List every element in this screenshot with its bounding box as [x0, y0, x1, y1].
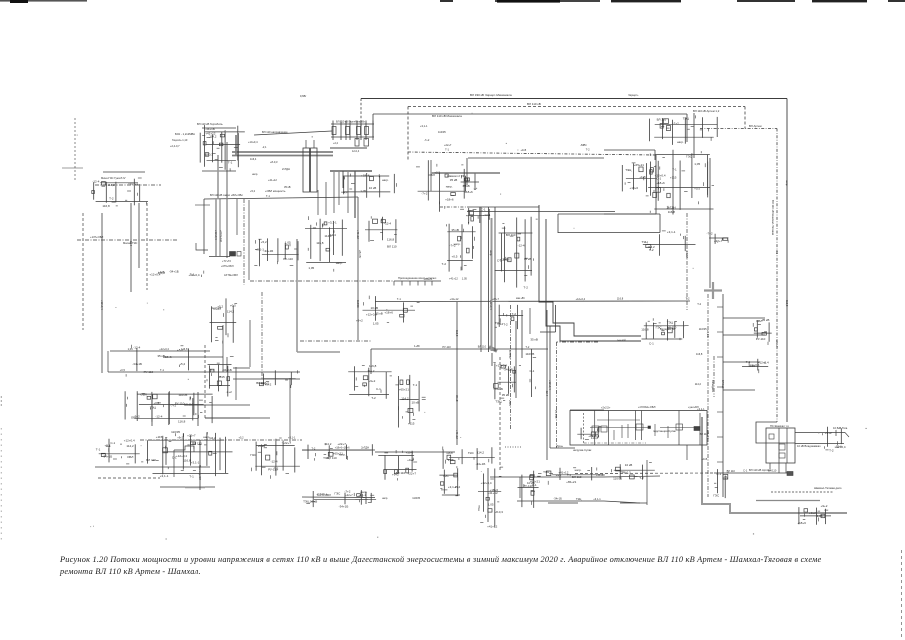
svg-text:нагр.: нагр.	[341, 190, 348, 194]
svg-text:Т-1: Т-1	[189, 474, 194, 478]
svg-text:+8-0,3: +8-0,3	[622, 471, 631, 475]
svg-text:10 кВ Владикавказ: 10 кВ Владикавказ	[797, 444, 821, 448]
substation ladder Gergebil 110 kV	[330, 120, 374, 154]
svg-text:+2,4: +2,4	[333, 142, 339, 145]
wire thick stub Gotsatl	[235, 135, 237, 155]
svg-text:+41+12: +41+12	[450, 297, 459, 301]
tap inside Sulak e	[627, 424, 629, 438]
svg-text:9,6Вт: 9,6Вт	[300, 94, 307, 98]
svg-text:+115: +115	[702, 457, 708, 461]
svg-text:С-1: С-1	[775, 250, 779, 255]
wire Shamkhal-Tyagovaya dotted	[771, 491, 833, 493]
wire dash-dot vertical 510	[510, 305, 512, 430]
svg-text:114,2: 114,2	[647, 245, 655, 249]
svg-text:ВЛ 110: ВЛ 110	[478, 345, 487, 349]
svg-text:ОБЛ: ОБЛ	[140, 393, 146, 397]
tap labels along south trunk	[695, 302, 723, 462]
bus inside Sulak a	[594, 411, 596, 446]
svg-text:+5,2: +5,2	[250, 189, 256, 193]
value labels mid-left band	[248, 140, 291, 198]
svg-text:+5,2: +5,2	[454, 485, 460, 489]
svg-text:ВЛ Артем: ВЛ Артем	[749, 124, 762, 128]
wire bus 211	[467, 211, 615, 213]
svg-text:2хТДН: 2хТДН	[361, 446, 369, 450]
wire south trunk with taps	[722, 294, 724, 497]
svg-text:116,4: 116,4	[250, 157, 257, 161]
svg-text:-7+2: -7+2	[707, 232, 713, 236]
svg-text:-12-4: -12-4	[133, 346, 140, 350]
svg-text:1,05: 1,05	[360, 189, 366, 193]
wire Makhachkala-Izberbash trunk	[709, 158, 711, 288]
wire thick flow to Shamkhal-Tyagovaya	[702, 417, 847, 513]
wire tie line Gergebil	[254, 131, 332, 135]
svg-text:подстанция Сулак: подстанция Сулак	[653, 429, 677, 433]
svg-text:Т-2: Т-2	[371, 396, 376, 400]
wire corner left 243	[196, 243, 208, 250]
substation group taps labels	[742, 359, 769, 373]
svg-text:-12-4: -12-4	[155, 415, 162, 419]
substation group Derbent PS group	[493, 363, 521, 404]
svg-text:нагрузка Сулак: нагрузка Сулак	[573, 448, 592, 452]
bus Shamkhal inner a	[778, 428, 780, 463]
wire Vladikavkaz lead	[795, 443, 844, 445]
wire tie 148	[330, 147, 367, 149]
svg-text:ОБЛ: ОБЛ	[127, 455, 133, 459]
wire thick flow Botlikh	[185, 487, 205, 489]
wire Gotsatl lower tie	[204, 197, 358, 199]
svg-text:ВЛ 110 направление: ВЛ 110 направление	[262, 130, 288, 134]
svg-text:Т-1: Т-1	[567, 473, 571, 477]
value labels tie 301 east	[576, 297, 690, 301]
wire Derbent drop	[519, 477, 521, 498]
svg-text:ОБЛ: ОБЛ	[756, 319, 762, 323]
svg-text:116,8: 116,8	[316, 241, 324, 245]
substation group Mamedkala end box	[355, 490, 376, 505]
svg-text:+12+0,4: +12+0,4	[124, 439, 135, 443]
svg-text:110/35: 110/35	[178, 393, 187, 397]
svg-text:+65+21: +65+21	[634, 163, 645, 167]
wire Shamkhal box drop c	[785, 463, 787, 473]
wire vertical 495	[494, 207, 496, 351]
svg-text:+9+2: +9+2	[369, 379, 376, 383]
substation group mid boxes	[461, 173, 479, 194]
substation group SW corner chain	[439, 468, 460, 496]
svg-text:нагр.: нагр.	[785, 180, 788, 186]
wire vertical 516	[515, 321, 517, 398]
substation group Botlikh group	[125, 391, 213, 425]
substation group transformer group center	[442, 224, 476, 272]
wire drop to 13b	[226, 199, 228, 258]
svg-text:Т-1: Т-1	[746, 360, 751, 364]
wire stub left 205	[195, 204, 210, 206]
wire Mamedkala chain	[302, 496, 375, 499]
svg-text:-34+1Б: -34+1Б	[339, 505, 349, 509]
svg-text:+5,2: +5,2	[239, 435, 245, 439]
svg-text:С-1: С-1	[530, 369, 535, 373]
svg-text:-34+1Б: -34+1Б	[685, 250, 689, 259]
svg-text:-34+1Б: -34+1Б	[503, 368, 513, 372]
svg-text:нагр.: нагр.	[575, 468, 582, 472]
svg-text:+12+0,4: +12+0,4	[189, 273, 200, 277]
substation group Kaspiysk south group	[443, 447, 495, 470]
svg-text:+3,1-1: +3,1-1	[697, 407, 705, 411]
svg-text:+22+7: +22+7	[408, 471, 417, 475]
svg-text:+22+7: +22+7	[775, 340, 779, 348]
wire Levashi chain	[302, 449, 375, 451]
wire lateral 35 kV a	[110, 350, 210, 352]
substation group box above Sulak	[577, 426, 601, 440]
wire rectangle right side	[659, 214, 661, 233]
svg-text:С-1: С-1	[376, 387, 381, 391]
substation group Derbent chain labels	[543, 467, 604, 485]
svg-text:нагр.: нагр.	[446, 184, 453, 188]
svg-text:110/35: 110/35	[412, 496, 420, 500]
svg-text:+18+6: +18+6	[163, 355, 172, 359]
wire dash-dot inside Sulak bottom	[584, 442, 646, 444]
wire step down at 655	[654, 150, 656, 160]
svg-text:С-1: С-1	[172, 455, 177, 459]
svg-text:1,05: 1,05	[373, 321, 379, 325]
svg-text:114,2: 114,2	[107, 183, 115, 187]
svg-text:+65+21: +65+21	[399, 388, 410, 392]
svg-text:С-1: С-1	[110, 441, 115, 445]
svg-text:+3,1-1: +3,1-1	[420, 124, 428, 128]
svg-text:-34+1Б: -34+1Б	[132, 362, 142, 366]
svg-text:ВЛ 110: ВЛ 110	[327, 456, 337, 460]
junction thick cross vertical	[712, 282, 714, 299]
svg-text:35 кВ: 35 кВ	[258, 444, 265, 448]
svg-text:35 кВ: 35 кВ	[450, 178, 457, 182]
wire tie 503	[620, 502, 647, 504]
svg-text:нагр.: нагр.	[489, 250, 492, 256]
svg-text:-7+2: -7+2	[421, 192, 427, 196]
wire vertical 522	[521, 310, 523, 358]
wire thick drop Shamkhal-2	[430, 160, 432, 191]
svg-text:+ОБЛ+148: +ОБЛ+148	[219, 230, 222, 242]
svg-text:+12+0,4: +12+0,4	[176, 454, 187, 458]
svg-text:35 кВ: 35 кВ	[502, 393, 509, 397]
wire Botlikh drop a	[151, 395, 153, 426]
wire left edge dashed feeder	[74, 118, 76, 180]
substation group Khunzakh group	[92, 178, 148, 208]
svg-text:+12+0,4: +12+0,4	[835, 445, 846, 449]
box next to Chirkei block	[237, 252, 241, 257]
svg-text:+0,5: +0,5	[153, 401, 159, 405]
substation group Belidzhi taps boxes	[753, 318, 772, 345]
svg-text:-7+2: -7+2	[424, 138, 430, 142]
svg-text:+18+6: +18+6	[630, 186, 639, 190]
svg-text:10 кВ: 10 кВ	[462, 184, 469, 188]
wire drop 220	[219, 199, 221, 256]
value labels bus 281	[424, 277, 468, 281]
svg-text:+65+21: +65+21	[566, 480, 577, 484]
svg-text:+0,5: +0,5	[452, 254, 458, 258]
svg-text:-34+1Б: -34+1Б	[553, 497, 562, 501]
wire drop at 371	[370, 349, 372, 374]
wire thick flow Derbent	[548, 502, 578, 504]
svg-text:Т-2: Т-2	[523, 286, 528, 290]
svg-text:+41+12: +41+12	[268, 178, 277, 182]
svg-text:нагр.: нагр.	[556, 474, 562, 477]
svg-text:С-1: С-1	[723, 476, 728, 480]
svg-text:ГЭС: ГЭС	[250, 453, 257, 457]
wire thick Gotsatl flow	[217, 155, 219, 198]
svg-text:-12-4: -12-4	[483, 213, 490, 217]
wire stub above box G1	[305, 140, 307, 148]
svg-text:+12+0,4: +12+0,4	[576, 297, 586, 301]
wire dash-dot Kaspiysk lateral	[686, 213, 688, 310]
wire end hook	[845, 433, 849, 438]
wire double bus upper (to Gergebil)	[232, 151, 333, 153]
value labels tie 301 west	[397, 297, 500, 301]
substation group Shamkhal-2 group	[416, 160, 466, 212]
wire Botlikh drop b	[197, 392, 199, 426]
value labels near center top	[420, 124, 452, 147]
wire tap Belidzhi b	[723, 334, 765, 336]
substation group group 38	[250, 438, 300, 479]
wire tie inside Sulak	[590, 427, 650, 429]
svg-text:+3,1-1: +3,1-1	[706, 330, 710, 338]
wire Artem lower tie	[756, 500, 820, 502]
svg-text:+0,5: +0,5	[434, 171, 440, 175]
wire center vertical 457	[456, 302, 458, 445]
svg-text:1,05: 1,05	[817, 514, 823, 518]
svg-text:+9+2: +9+2	[356, 319, 363, 323]
svg-text:ВЛ 110 кВ Артём+: ВЛ 110 кВ Артём+	[749, 468, 772, 472]
value labels lateral c	[120, 368, 215, 372]
value labels VL Artem chain	[727, 468, 777, 473]
svg-text:114,2: 114,2	[324, 234, 332, 238]
wire dashed lateral	[98, 477, 160, 479]
svg-text:+41+12: +41+12	[596, 473, 605, 477]
svg-text:нагр.: нагр.	[252, 173, 258, 176]
bus inside Sulak dashed	[583, 413, 585, 443]
svg-text:-34+1Б: -34+1Б	[493, 387, 503, 391]
substation group left labels	[96, 439, 144, 464]
svg-text:Т-1: Т-1	[228, 161, 233, 165]
wire vertical 488	[488, 207, 490, 352]
svg-text:ВЛ 110: ВЛ 110	[572, 475, 582, 479]
svg-text:Т-1: Т-1	[96, 448, 101, 452]
svg-text:-34+1Б: -34+1Б	[103, 455, 113, 459]
wire Artem drop	[693, 113, 695, 158]
svg-text:Т-1: Т-1	[210, 368, 214, 372]
wire box top edge reinforce	[570, 409, 604, 411]
svg-text:нагр.: нагр.	[677, 140, 684, 144]
svg-text:ГЭС: ГЭС	[713, 494, 720, 498]
wire dotted stub 447	[505, 446, 522, 448]
svg-text:+115: +115	[521, 148, 527, 152]
value labels tie 349	[442, 345, 529, 349]
wire vertical 250	[249, 320, 251, 367]
svg-text:1,05: 1,05	[128, 347, 134, 351]
svg-text:Гоцатль 1,10: Гоцатль 1,10	[172, 138, 188, 142]
wire Khunzakh dash-dot feeder	[95, 184, 161, 186]
wire Botlikh bus b	[205, 417, 250, 419]
wire drop 237	[236, 199, 238, 235]
wire Derbent chain upper	[490, 476, 604, 478]
wire tie 448	[550, 447, 575, 449]
wire dash-dot continue	[713, 356, 715, 397]
svg-text:+9+2: +9+2	[177, 435, 183, 439]
svg-text:С-1: С-1	[481, 208, 486, 212]
generator box Chirkei G2	[311, 148, 318, 192]
verticals dropping from Buynaksk bus	[318, 171, 348, 215]
svg-text:+18+6: +18+6	[342, 446, 350, 450]
junction block on Artem chain	[787, 472, 793, 476]
wire vertical 290	[289, 378, 291, 442]
wire dash-dot 342	[557, 341, 599, 343]
rotated line designations along vertical feeders	[100, 180, 789, 439]
bus 281 tap ticks	[394, 281, 432, 286]
svg-text:ВЛ 110: ВЛ 110	[387, 245, 397, 249]
svg-text:+18+6: +18+6	[445, 198, 454, 202]
tap inside Sulak d	[667, 426, 669, 438]
wire dash-dot drop 244	[243, 199, 245, 285]
svg-text:114,2: 114,2	[401, 396, 409, 400]
svg-text:1,05: 1,05	[308, 266, 314, 270]
svg-text:Т-2: Т-2	[586, 148, 590, 152]
tap inside Sulak b	[621, 425, 623, 438]
svg-text:+12+0,4: +12+0,4	[489, 300, 493, 310]
svg-text:-12-4: -12-4	[518, 244, 525, 248]
svg-text:-34+1Б: -34+1Б	[222, 368, 232, 372]
svg-text:С-1: С-1	[649, 341, 654, 345]
substation group bus 207 bays	[466, 207, 491, 224]
substation group lateral labels	[126, 345, 188, 377]
svg-text:ОБЛ: ОБЛ	[429, 173, 435, 177]
wire Gunib tie	[95, 466, 210, 468]
svg-text:Т-2: Т-2	[512, 312, 517, 316]
svg-text:10,5кВ Тяга: 10,5кВ Тяга	[833, 426, 848, 430]
svg-text:116,8: 116,8	[446, 451, 453, 455]
svg-text:Т-2: Т-2	[442, 262, 447, 266]
svg-text:+3,1-1: +3,1-1	[593, 497, 601, 501]
svg-text:+0Т6+ОБЛ: +0Т6+ОБЛ	[221, 265, 234, 268]
wire VL Artem chain dashed	[575, 472, 714, 475]
svg-text:Присоединение всего +отключ: Присоединение всего +отключ	[398, 276, 437, 280]
station box Shamkhal-Tyagovaya	[766, 428, 795, 463]
svg-text:1,05: 1,05	[462, 277, 468, 281]
svg-text:-12-4: -12-4	[129, 240, 133, 247]
bus Sulak right section	[699, 413, 701, 445]
svg-text:+12+0,4: +12+0,4	[496, 364, 507, 368]
svg-text:ВЛ 110: ВЛ 110	[727, 469, 736, 473]
wire drop 249	[248, 200, 250, 280]
wire vertical 223	[222, 325, 224, 372]
value labels dash-dot loop mid	[445, 148, 590, 152]
wire vertical 481	[480, 207, 482, 352]
svg-text:+8-0,3: +8-0,3	[204, 152, 213, 156]
svg-text:+3,1-1: +3,1-1	[359, 493, 367, 497]
wire bus 281 dashed part	[250, 280, 394, 282]
substation group group 27	[256, 370, 297, 388]
svg-text:+12+0,4: +12+0,4	[655, 174, 666, 178]
generator box Chirkei G1	[303, 148, 310, 192]
unit box Shamkhal T1	[779, 444, 785, 450]
substation group Makhachkala 110 bays	[622, 163, 660, 192]
svg-text:+12+0,4: +12+0,4	[159, 347, 169, 351]
svg-text:110/35: 110/35	[356, 300, 360, 308]
svg-text:+3,1-1: +3,1-1	[288, 436, 296, 440]
substation group south trunk labels	[713, 469, 729, 498]
wire Botlikh bus a	[185, 404, 250, 406]
svg-text:-12-4: -12-4	[384, 222, 391, 226]
svg-text:РУ-110: РУ-110	[283, 257, 293, 261]
wire thick flow Buynaksk	[330, 170, 372, 172]
substation group Buynaksk group	[341, 173, 396, 198]
wire dash-dot middle loop	[408, 152, 656, 155]
svg-text:110/35: 110/35	[317, 493, 325, 497]
wire thick flow Shamkhal-2	[431, 172, 500, 174]
wire 110 kV run east of Makhachkala	[604, 149, 655, 151]
svg-text:АХТЫ+ОБЛ: АХТЫ+ОБЛ	[224, 274, 238, 277]
svg-text:ВЛ 110 кВ Гергебиль: ВЛ 110 кВ Гергебиль	[197, 122, 223, 126]
svg-text:ВЛ 110 кВ Артем 1,2: ВЛ 110 кВ Артем 1,2	[693, 109, 720, 113]
substation group group 21	[365, 216, 397, 249]
wire drop to lower cluster	[203, 199, 205, 254]
svg-text:Т-2: Т-2	[525, 345, 529, 349]
substation group Tarki group	[395, 375, 425, 428]
svg-text:35 кВ: 35 кВ	[762, 318, 769, 322]
wire thick elbow horizontal	[297, 351, 340, 353]
svg-text:ТЭЦ: ТЭЦ	[642, 240, 649, 244]
svg-text:110/35: 110/35	[613, 477, 622, 481]
substation group Izberbash group	[378, 450, 417, 481]
wire vertical 550	[549, 326, 551, 448]
svg-text:35 кВ: 35 кВ	[455, 395, 459, 402]
svg-text:+41+12: +41+12	[488, 491, 499, 495]
wire tie 379	[233, 378, 300, 380]
substation group Levashi chain labels	[302, 442, 372, 461]
svg-text:Т-1: Т-1	[672, 168, 677, 172]
svg-text:+12+0,4: +12+0,4	[481, 481, 492, 485]
svg-text:+5,2: +5,2	[261, 240, 267, 244]
svg-text:+ОБЛ мощность: +ОБЛ мощность	[265, 189, 286, 193]
svg-text:+65+21: +65+21	[706, 430, 710, 439]
svg-text:+65+21: +65+21	[128, 182, 139, 186]
svg-text:Белиджи Вл: Белиджи Вл	[660, 327, 676, 331]
svg-text:+115: +115	[156, 435, 163, 439]
svg-text:ТЭЦ: ТЭЦ	[495, 400, 502, 404]
wire Khunzakh upper tie	[103, 171, 145, 173]
svg-text:нагр.: нагр.	[454, 242, 461, 246]
svg-text:116,8: 116,8	[617, 297, 624, 301]
svg-text:+СУЛАК+ОБЛ: +СУЛАК+ОБЛ	[638, 405, 656, 409]
wire tie inside Sulak b	[660, 427, 700, 429]
bus Shamkhal inner b	[786, 428, 788, 463]
svg-text:-12-4: -12-4	[545, 390, 549, 397]
svg-text:Т-2: Т-2	[639, 476, 644, 480]
wire middle loop left drop	[557, 214, 559, 233]
svg-text:+22+7: +22+7	[714, 239, 723, 243]
svg-text:-МВт: -МВт	[580, 143, 587, 147]
svg-text:ремонта ВЛ 110 кВ Артем - Шам: ремонта ВЛ 110 кВ Артем - Шамхал.	[59, 567, 201, 576]
wire thick vertical 491	[491, 218, 493, 351]
junction thick cross horizontal	[704, 289, 722, 291]
unit box Sulak G3	[636, 424, 643, 430]
svg-text:+18+6: +18+6	[464, 190, 473, 194]
svg-text:+18+6: +18+6	[656, 181, 665, 185]
tap inside Sulak a	[613, 430, 615, 440]
svg-text:+12+0,4: +12+0,4	[548, 380, 552, 390]
wire 10 kV Tyaga lead	[795, 432, 845, 434]
wire lateral 487	[160, 486, 215, 488]
svg-text:114,2: 114,2	[227, 310, 235, 314]
svg-text:-7+2: -7+2	[673, 122, 679, 126]
svg-text:+22+7: +22+7	[283, 441, 292, 445]
svg-text:1,05: 1,05	[488, 503, 494, 507]
